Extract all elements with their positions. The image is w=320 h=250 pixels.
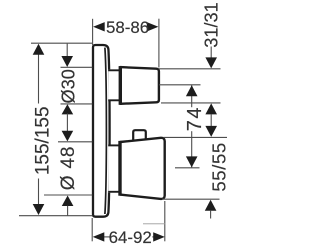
dimension 155/155: top extension line — [31, 42, 92, 44]
dimension 55/55: leader line below — [210, 211, 212, 219]
dimension 74: top arrowhead — [186, 85, 198, 96]
svg-text:55/55: 55/55 — [208, 142, 229, 192]
svg-text:58-86: 58-86 — [106, 18, 149, 37]
upper handle base edge — [119, 66, 122, 105]
dimension 64-92: right arrowhead — [153, 232, 165, 241]
faint reference line at lower handle bottom — [143, 223, 165, 225]
dimension 31/31: lower outside arrowhead — [205, 103, 217, 114]
stem of upper handle — [108, 69, 120, 101]
dimension 31/31: lower extension line — [161, 102, 221, 104]
dimension 58-86: left arrowhead — [93, 22, 105, 31]
dimension &#216;30: upper extension line — [61, 66, 93, 68]
dimension 58-86: right arrowhead — [147, 22, 159, 31]
dimension &#216;30: lower extension line — [61, 103, 93, 105]
dimension &#216;48: leader line below — [67, 206, 69, 216]
dimension 74: bottom arrowhead — [186, 156, 198, 167]
dimension 31/31: upper outside arrowhead — [205, 57, 217, 68]
dimension 155/155: top arrowhead — [33, 44, 45, 55]
dimension 64-92: dimension line right segment — [152, 236, 154, 238]
upper handle (temperature knob) — [120, 67, 158, 104]
dimension &#216;48: lower outside arrowhead — [62, 196, 74, 207]
wall plate inner front rim line — [105, 48, 107, 214]
dimension 155/155: bottom extension line — [19, 215, 93, 217]
dimension 58-86: left extension line — [92, 19, 94, 45]
svg-text:Ø 48: Ø 48 — [58, 146, 79, 190]
svg-text:74: 74 — [184, 106, 206, 131]
lower handle base edge — [118, 141, 121, 196]
dimension 55/55: lower outside arrowhead — [205, 200, 217, 211]
dimension 58-86: right extension line — [158, 19, 160, 68]
dimension 74: dimension line lower segment — [191, 131, 193, 167]
dimension 155/155: bottom arrowhead — [33, 204, 45, 215]
dimension 64-92: left extension line — [91, 218, 93, 241]
dimension &#216;30: lower outside arrowhead — [62, 104, 74, 114]
connector between 31/31 and 55/55 arrows — [210, 114, 212, 127]
svg-text:Ø30: Ø30 — [59, 69, 79, 103]
svg-text:64-92: 64-92 — [109, 228, 152, 247]
stem of lower handle — [108, 145, 120, 193]
lower handle (volume knob) — [120, 138, 165, 199]
dimension &#216;48: upper outside arrowhead — [62, 131, 74, 142]
svg-text:31/31: 31/31 — [202, 2, 222, 48]
dimension 55/55: upper outside arrowhead — [205, 126, 217, 137]
dimension 64-92: right extension line — [164, 201, 166, 241]
dimension &#216;30: leader line from top — [66, 44, 68, 57]
tab on top of lower handle — [133, 130, 146, 141]
dimension 64-92: left arrowhead — [93, 232, 105, 241]
dimension 74: dimension line upper segment — [191, 85, 193, 107]
svg-text:155/155: 155/155 — [33, 106, 54, 175]
dimension &#216;30: upper outside arrowhead — [61, 56, 73, 67]
dimension 31/31: upper extension line — [159, 68, 221, 70]
dimension &#216;48: lower extension line — [44, 194, 92, 196]
dimension 74: upper extension line — [159, 84, 201, 86]
dimension 64-92: dimension line left segment — [104, 236, 110, 238]
wall plate outline (side view) — [93, 45, 110, 217]
dimension 74: lower extension line — [175, 167, 200, 169]
dimension 55/55: lower extension line — [162, 198, 220, 200]
dimension 155/155: dimension line upper segment — [38, 46, 40, 104]
dimension &#216;48: upper extension line — [58, 141, 92, 143]
dimension 155/155: dimension line lower segment — [38, 179, 40, 214]
connector between &#216;30 and &#216;48 arrows — [66, 114, 68, 132]
dimension 55/55: upper extension line — [164, 136, 228, 138]
dimension 31/31: leader line from label — [210, 47, 212, 58]
